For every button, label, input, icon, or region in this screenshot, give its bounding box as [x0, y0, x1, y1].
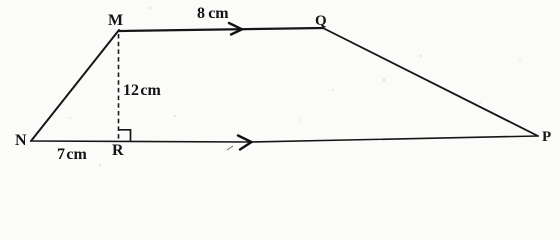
side NP: [31, 136, 538, 142]
label 8 cm: [197, 5, 229, 23]
right angle at R: [119, 130, 131, 142]
arrow on MQ: [229, 23, 242, 35]
label M: [108, 12, 123, 30]
side MQ: [119, 28, 323, 31]
trapezium figure MNPQ: [0, 0, 560, 171]
label R: [112, 142, 124, 160]
stray sketch mark below NP arrow: [227, 146, 233, 150]
side QP: [323, 28, 538, 136]
faint speckles: [69, 7, 520, 165]
altitude MR dashed: [118, 34, 120, 141]
label P: [542, 129, 551, 146]
arrow on NP: [238, 136, 252, 150]
label N: [15, 132, 27, 150]
label 12 cm: [123, 82, 161, 100]
side NM: [31, 30, 119, 141]
label Q: [315, 13, 327, 30]
label 7 cm: [57, 146, 87, 164]
